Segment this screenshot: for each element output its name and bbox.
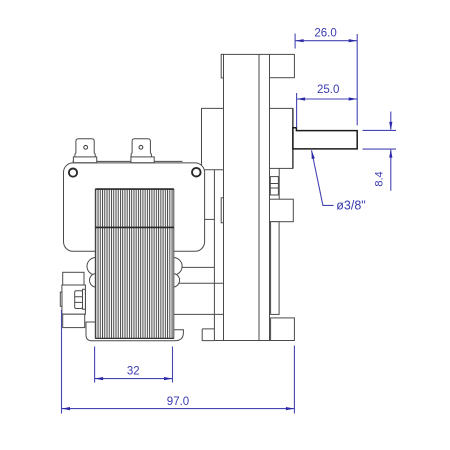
dim 32 line (95, 378, 173, 380)
svg-text:97.0: 97.0 (167, 396, 189, 408)
gearbox front plate (224, 54, 270, 340)
arrows 26.0 (295, 39, 304, 42)
gearbox left flange (202, 108, 224, 165)
lower boss (270, 199, 294, 222)
dim 25.0 extension left (296, 93, 298, 128)
bolt bracket main (62, 285, 86, 314)
dim 8.4 extensions (363, 130, 397, 149)
arrows 32 (95, 377, 104, 380)
dim 32 extensions (95, 347, 173, 383)
gearbox bottom step (202, 329, 214, 341)
plate thin tab middle (221, 198, 223, 223)
dim 25.0 line (297, 98, 358, 100)
bolt bracket upper (63, 272, 84, 285)
bracket arm top edge (205, 169, 224, 171)
dim 26.0 extension left (294, 34, 296, 49)
bracket arm lower edge (205, 218, 215, 220)
dim 26.0/25.0 extension right (356, 34, 358, 125)
arrows 97.0 (62, 407, 71, 410)
hidden housing edge between bosses (278, 168, 280, 199)
mounting foot (271, 318, 295, 341)
dim 8.4 arrow lines (390, 112, 392, 191)
bolt tip (60, 292, 62, 306)
left bobbin bumps (87, 258, 105, 276)
lamination stack (95, 189, 174, 339)
svg-text:ø3/8": ø3/8" (336, 199, 365, 213)
screw left (69, 169, 77, 177)
screw right (192, 168, 201, 177)
dimensions (62, 34, 397, 414)
terminal 2 (131, 139, 151, 157)
shaft boss (270, 108, 293, 168)
gearbox top right tab (270, 54, 295, 77)
svg-text:8.4: 8.4 (374, 171, 386, 186)
bracket horizontals (172, 267, 224, 314)
bracket arm vertical (213, 170, 215, 341)
dim 97.0 extensions (62, 310, 295, 414)
clip detail (270, 177, 278, 195)
svg-text:26.0: 26.0 (314, 28, 336, 40)
leader line for shaft dia (312, 150, 334, 205)
arrows 8.4 (389, 122, 392, 131)
right strip (271, 222, 280, 315)
washer (83, 289, 86, 309)
dim 26.0 line (295, 40, 357, 42)
svg-text:32: 32 (127, 365, 140, 377)
terminal 1 (75, 139, 95, 157)
right bobbin bumps (165, 258, 183, 276)
gearbox bottom edge (214, 340, 294, 342)
output shaft (293, 128, 357, 149)
svg-text:25.0: 25.0 (317, 84, 339, 96)
dim 97.0 line (62, 408, 295, 410)
arrow leader (310, 150, 315, 159)
housing seam line (73, 160, 183, 162)
motor housing (64, 163, 205, 251)
bottom pan bracket (86, 322, 183, 341)
hex nut (75, 291, 83, 309)
bolt bracket lower (63, 314, 85, 327)
arrows 25.0 (297, 97, 306, 100)
plate inner line (258, 54, 260, 340)
plate thin tab top (221, 54, 223, 78)
